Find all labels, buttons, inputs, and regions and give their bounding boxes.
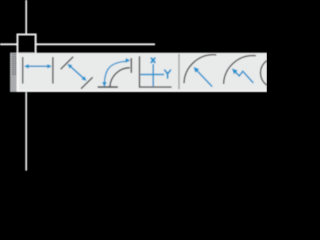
radius dimension icon: blue radius shaft (196, 70, 212, 87)
grip highlight stripe (17, 53, 19, 92)
arc length icon: bottom arrowhead (102, 82, 107, 87)
toolbar bottom highlight bevel (17, 90, 267, 92)
crosshair horizontal arm (left) (0, 43, 18, 45)
radius dimension icon: dark arc (184, 55, 216, 83)
toolbar grip band (10, 53, 17, 92)
linear dimension icon: right arrowhead (47, 64, 52, 68)
arc length icon: right arrowhead (126, 58, 131, 63)
dimension toolbar panel (10, 53, 267, 92)
toolbar separator (178, 54, 180, 89)
radius dimension icon: arrowhead (192, 65, 200, 73)
aligned dimension icon: upper arrowhead (66, 62, 73, 68)
linear dimension icon: left arrowhead (24, 64, 29, 68)
drawing area background (0, 0, 267, 220)
crosshair horizontal arm (right) (36, 43, 155, 45)
arc length icon: blue arc (104, 61, 125, 84)
crosshair vertical arm (top) (25, 0, 27, 34)
jogged radius icon: blue jogged shaft (235, 71, 254, 83)
linear dimension icon: left extension line (22, 57, 24, 84)
crosshair vertical arm (bottom, below toolbar) (25, 92, 27, 170)
ordinate dimension icon: Y label (165, 70, 171, 78)
diameter dimension icon (clipped at right edge): circle (261, 58, 291, 88)
aligned dimension icon: upper-left extension tick (61, 57, 74, 70)
ordinate dimension icon: blue horizontal leader (141, 74, 165, 76)
grip dots (12, 54, 16, 75)
jogged radius icon: arrowhead (230, 67, 238, 75)
arc length icon: baseline (98, 86, 118, 88)
ordinate dimension icon: blue vertical leader (152, 64, 154, 86)
arc length icon: dark arc (110, 68, 130, 87)
ordinate dimension icon: dark axis L (140, 56, 172, 87)
pickbox square (17, 34, 36, 54)
aligned dimension icon: lower-right extension tick (81, 77, 93, 89)
aligned dimension icon: blue arrow shaft (70, 66, 84, 79)
aligned dimension icon: lower arrowhead (82, 76, 89, 82)
linear dimension icon: blue dimension arrow shaft (28, 65, 49, 67)
linear dimension icon: right extension line (52, 57, 54, 84)
jogged radius icon: dark arc (224, 56, 256, 84)
arc length icon: right end tick (130, 58, 132, 73)
ordinate dimension icon: X label (151, 58, 155, 62)
